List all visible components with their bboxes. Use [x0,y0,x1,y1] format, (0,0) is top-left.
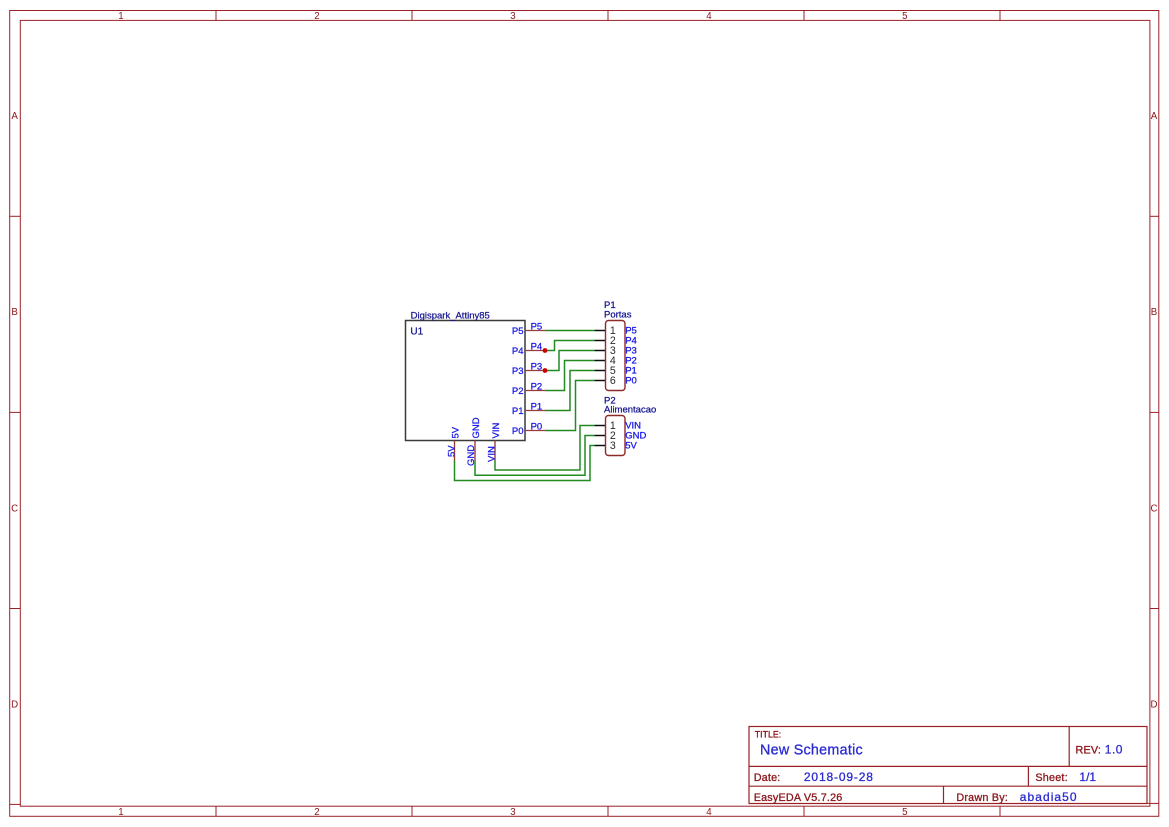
svg-text:3: 3 [510,807,515,818]
svg-text:EasyEDA V5.7.26: EasyEDA V5.7.26 [754,792,843,804]
svg-text:Sheet:: Sheet: [1035,772,1067,784]
svg-text:GND: GND [471,417,482,438]
svg-text:P0: P0 [531,422,543,433]
svg-text:1.0: 1.0 [1105,743,1123,757]
svg-text:5: 5 [902,11,907,22]
svg-text:P1: P1 [531,402,543,413]
svg-text:GND: GND [466,445,477,466]
svg-text:VIN: VIN [491,423,502,439]
svg-text:U1: U1 [410,326,423,337]
svg-text:2: 2 [314,11,319,22]
svg-text:3: 3 [510,11,515,22]
svg-text:4: 4 [706,807,712,818]
svg-text:C: C [11,503,18,514]
svg-text:B: B [11,307,17,318]
svg-text:5V: 5V [625,441,637,452]
svg-text:P0: P0 [625,376,637,387]
svg-text:P0: P0 [512,426,524,437]
svg-text:C: C [1151,503,1158,514]
svg-text:P4: P4 [512,346,524,357]
svg-text:1: 1 [118,11,123,22]
svg-text:5V: 5V [447,445,458,457]
svg-text:Drawn By:: Drawn By: [956,792,1008,804]
svg-text:TITLE:: TITLE: [755,729,781,739]
svg-text:P3: P3 [531,362,543,373]
svg-text:5V: 5V [451,426,462,438]
svg-text:1: 1 [118,807,123,818]
svg-text:D: D [11,700,18,711]
svg-text:2018-09-28: 2018-09-28 [804,770,874,784]
svg-text:New Schematic: New Schematic [760,742,863,758]
svg-text:3: 3 [610,440,616,452]
svg-text:6: 6 [610,375,616,387]
svg-text:Portas: Portas [604,309,632,320]
svg-text:P2: P2 [531,382,543,393]
svg-text:Alimentacao: Alimentacao [604,405,656,416]
svg-text:VIN: VIN [486,446,497,462]
svg-text:1/1: 1/1 [1079,770,1096,784]
svg-text:5: 5 [902,807,907,818]
svg-text:4: 4 [706,11,712,22]
svg-text:B: B [1151,307,1157,318]
svg-text:P3: P3 [512,366,524,377]
svg-text:P1: P1 [512,406,524,417]
svg-text:REV:: REV: [1076,744,1102,756]
svg-text:Date:: Date: [754,772,781,784]
svg-text:D: D [1151,700,1158,711]
svg-text:Digispark_Attiny85: Digispark_Attiny85 [411,311,490,322]
svg-text:P2: P2 [512,386,524,397]
svg-text:2: 2 [314,807,319,818]
svg-text:P5: P5 [531,322,543,333]
svg-text:A: A [11,111,18,122]
svg-text:abadia50: abadia50 [1020,790,1078,804]
svg-text:P5: P5 [512,326,524,337]
svg-text:A: A [1151,111,1158,122]
svg-text:P4: P4 [531,342,543,353]
